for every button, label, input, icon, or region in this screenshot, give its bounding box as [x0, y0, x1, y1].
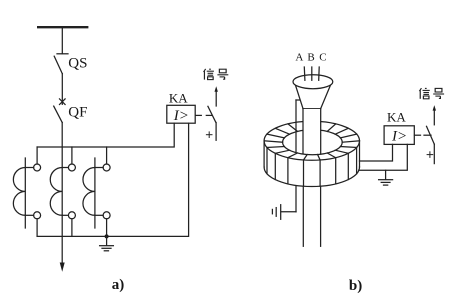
- svg-text:b): b): [349, 278, 362, 294]
- svg-text:KA: KA: [169, 91, 188, 106]
- svg-text:KA: KA: [387, 110, 406, 125]
- svg-text:I>: I>: [391, 129, 407, 145]
- svg-text:QS: QS: [68, 55, 87, 71]
- svg-text:QF: QF: [68, 104, 87, 120]
- svg-text:I>: I>: [173, 108, 189, 124]
- svg-text:B: B: [307, 51, 314, 63]
- svg-text:C: C: [319, 51, 326, 63]
- svg-text:A: A: [295, 51, 303, 63]
- svg-text:a): a): [112, 277, 125, 293]
